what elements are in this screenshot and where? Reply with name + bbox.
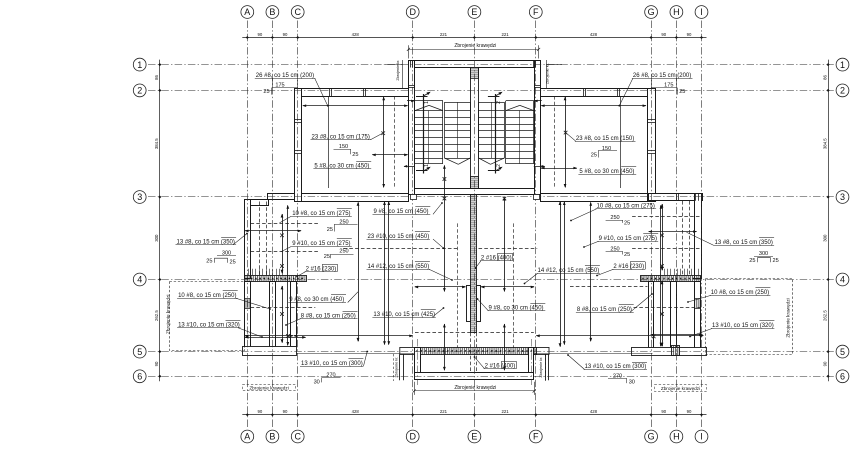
svg-text:6: 6 [840,372,845,382]
svg-text:221: 221 [440,32,448,37]
svg-text:25: 25 [624,221,630,227]
grid axis 3 horizontal dash-dot line [148,196,834,198]
grid axis B vertical dash-dot line [272,21,274,429]
hidden wall line south wing east [513,223,515,348]
hidden bar line west 9#8 [251,307,316,309]
svg-text:90: 90 [661,409,666,414]
bar position x mark [280,234,284,238]
west edge-zone dashed rectangle [170,282,245,351]
grid axis 2 horizontal dash-dot line [148,90,834,92]
svg-text:D: D [409,7,416,17]
west outer wall below row 4 [245,282,251,356]
arrow vertical 10#8 west upper [282,214,284,273]
svg-text:86: 86 [154,75,159,80]
svg-text:I: I [700,432,703,442]
svg-text:175: 175 [664,83,673,89]
center doorway west jamb [467,286,471,322]
svg-text:1: 1 [137,60,142,70]
svg-text:150: 150 [339,144,348,150]
svg-text:Zbrojenie kr.: Zbrojenie kr. [396,60,400,81]
svg-text:10 #8, co 15 cm (250): 10 #8, co 15 cm (250) [711,290,769,296]
svg-text:2: 2 [496,101,502,104]
svg-text:26 #8, co 15 cm (200): 26 #8, co 15 cm (200) [256,73,314,79]
arrow span 13#8 east protrusion [649,231,697,233]
rebar dots east edge beam [642,278,644,280]
hidden bar line west upper [251,223,319,225]
section cut line 1-1 [423,94,425,174]
grid axis G vertical dash-dot line [651,21,653,429]
hidden wall below east pair [682,201,684,275]
arrow span slab west of C [245,335,293,337]
east corridor wall on axis G below row 4 [649,282,654,348]
svg-text:4: 4 [840,275,845,285]
hidden beam line left wing [394,96,396,188]
south wing west stub wall [415,348,421,380]
svg-text:Zbrojenie kr.: Zbrojenie kr. [539,357,543,378]
east edge-zone dashed rectangle [706,279,793,355]
left wing bottom wall [302,194,409,202]
axis bubble C top [291,6,304,19]
grid axis E vertical dash-dot line [474,21,476,429]
axis bubble 3 right [836,191,849,204]
arrow vertical 5#8 left center [358,202,360,341]
south wing bottom wall on row 6 [415,373,534,380]
svg-text:B: B [269,432,275,442]
arrow vertical 9#8 center east upper [504,197,506,291]
svg-text:90: 90 [258,32,263,37]
svg-text:250: 250 [339,249,348,255]
svg-text:10 #8, co 15 cm (275): 10 #8, co 15 cm (275) [292,211,350,217]
svg-text:262.5: 262.5 [154,310,159,321]
svg-text:25: 25 [352,152,358,158]
svg-text:Zbrojenie krawędzi: Zbrojenie krawędzi [165,295,170,334]
wall joint stair west wall [408,85,414,87]
arrow vertical 9#8 center west lower [444,324,446,370]
bar position x mark [381,131,385,135]
svg-text:300: 300 [759,251,768,257]
svg-text:428: 428 [352,409,360,414]
stair block east wall [535,61,541,195]
svg-text:14 #12, co 15 cm (550): 14 #12, co 15 cm (550) [538,268,600,274]
svg-text:9 #10, co 15 cm (275): 9 #10, co 15 cm (275) [599,236,657,242]
wall joints left wing top wall [329,88,331,96]
arrow vertical 10#8 east upper [662,204,664,270]
bar position x mark [280,264,284,268]
svg-text:300: 300 [822,234,827,242]
west protrusion top wall upper segment [268,194,295,200]
axis bubble F bottom [529,430,542,443]
svg-text:30: 30 [314,380,320,386]
grid axis 5 horizontal dash-dot line [148,351,834,353]
arrow span 5#8 left wing [372,154,407,156]
right wing east wall on axis G [648,89,656,202]
svg-text:E: E [471,7,477,17]
svg-text:30: 30 [629,380,635,386]
stair left cell outer flight treads [414,101,416,164]
rebar dots south edge beam [416,350,418,352]
svg-text:150: 150 [602,146,611,152]
hidden slab edge south wing [415,332,534,334]
west protrusion top wall lower segment [245,200,269,206]
axis bubble 2 right [836,84,849,97]
wall joint west outer wall [245,299,251,309]
west hatched edge beam on axis 4 [245,276,307,282]
axis bubble 2 left [133,84,146,97]
slab edge line between wings right [534,353,653,355]
top dimension line [242,37,706,39]
slab edge line between wings left [296,353,415,355]
svg-text:G: G [648,7,655,17]
right wing bottom wall [541,194,648,202]
axis bubble H top [670,6,683,19]
svg-text:6: 6 [137,372,142,382]
east hatched edge beam on axis 4 [641,276,701,282]
axis bubble D top [406,6,419,19]
east protrusion top wall [649,194,703,201]
arrow span slab F to H long [536,335,703,337]
arrow vertical 23#8 right wing [565,97,567,187]
svg-text:Zbrojenie kr.: Zbrojenie kr. [545,63,549,84]
axis bubble B bottom [266,430,279,443]
svg-text:8 #8, co 15 cm (250): 8 #8, co 15 cm (250) [577,307,632,313]
svg-text:13 #10, co 15 cm (425): 13 #10, co 15 cm (425) [373,312,435,318]
svg-text:90: 90 [822,361,827,366]
arrow span 13#8 west protrusion [245,230,301,232]
svg-text:175: 175 [275,83,284,89]
svg-text:25: 25 [230,260,236,266]
axis bubble F top [529,6,542,19]
grid axis I vertical dash-dot line [701,21,703,429]
svg-text:A: A [244,7,250,17]
axis bubble 4 left [133,273,146,286]
grid axis C vertical dash-dot line [297,21,299,429]
svg-text:Zbrojenie kr.: Zbrojenie kr. [395,357,399,378]
stair block west wall [409,61,415,195]
bar position x mark [503,197,507,201]
west rebar ticks above edge beam [248,269,250,275]
svg-text:H: H [673,7,680,17]
svg-text:14 #12, co 15 cm (550): 14 #12, co 15 cm (550) [368,264,430,270]
svg-text:3: 3 [840,192,845,202]
axis bubble A bottom [241,430,254,443]
center spine wall hidden below [470,333,472,372]
subdim 175 right [676,78,678,87]
center spine wall hatched below stairs [471,195,477,333]
axis bubble H bottom [670,430,683,443]
svg-text:26 #8, co 15 cm (200): 26 #8, co 15 cm (200) [633,73,691,79]
svg-text:428: 428 [590,409,598,414]
south wing east stub wall [529,348,534,380]
svg-text:4: 4 [137,275,142,285]
axis bubble 4 right [836,273,849,286]
arrow span 26#8 right wing [541,105,646,107]
svg-text:25: 25 [324,254,330,260]
bar position x mark [280,312,284,316]
svg-text:E: E [471,432,477,442]
stair block bottom wall [409,189,541,195]
arrow span slab C to D [294,335,413,337]
left wing top wall [295,89,409,97]
axis bubble 5 right [836,345,849,358]
left dimension line [159,60,161,382]
svg-text:B: B [269,7,275,17]
stair left cell inner flight bottom triangle [445,158,459,164]
stair edge arrow east bottom [534,166,545,168]
arrow span 13#10 west protrusion [245,337,306,339]
svg-text:1: 1 [424,164,430,167]
svg-text:F: F [533,432,539,442]
east corridor landing wall [632,348,707,356]
svg-text:262.5: 262.5 [822,310,827,321]
grid axis 4 horizontal dash-dot line [148,279,834,281]
section cut line 2-2 [495,94,497,174]
arrow span 5#8 right wing [541,168,577,170]
stair block top wall [409,61,541,68]
grid axis 1 horizontal dash-dot line [148,64,834,66]
rebar dots west edge beam [247,278,249,280]
svg-text:25: 25 [679,89,685,95]
arrow vertical 5#8 right center [590,202,592,341]
stair right cell outer flight break triangle [520,105,534,110]
axis bubble E bottom [468,430,481,443]
svg-text:1: 1 [424,101,430,104]
axis bubble E top [468,6,481,19]
bar line 26#8 right wing [620,96,622,188]
svg-text:221: 221 [502,409,510,414]
grid axis 6 horizontal dash-dot line [148,376,834,378]
axis bubble A top [241,6,254,19]
arrow span 13#10 east protrusion [651,334,703,336]
svg-text:Zbrojenie krawędzi: Zbrojenie krawędzi [249,386,288,391]
hidden beam line left center [344,248,459,250]
stair block center spine wall [471,68,479,189]
arrow vertical 10#8 east lower [662,281,664,346]
svg-text:I: I [700,7,703,17]
bar position x mark [660,264,664,268]
grid axis A vertical dash-dot line [247,21,249,429]
svg-text:G: G [648,432,655,442]
svg-text:2: 2 [840,86,845,96]
svg-text:25: 25 [624,252,630,258]
svg-text:5: 5 [137,347,142,357]
hidden bar line east upper [632,216,702,218]
grid axis H vertical dash-dot line [676,21,678,429]
svg-text:25: 25 [749,258,755,264]
axis bubble C bottom [291,430,304,443]
svg-text:H: H [673,432,680,442]
hidden bar line west lower [251,251,319,253]
center doorway east jamb [477,286,481,322]
wall joints stair top wall [410,60,412,68]
axis bubble G bottom [645,430,658,443]
south wing east corner step [534,347,549,354]
bar position x mark [443,177,447,181]
arrow vertical 23#10 west pair [384,202,386,345]
arrow vertical long west [287,205,289,345]
south wing west corner step [400,347,415,354]
hidden beam line right center [479,248,538,250]
wall joint stair east wall [534,85,540,87]
svg-text:5: 5 [840,347,845,357]
svg-text:384.5: 384.5 [154,138,159,149]
left wing west wall on axis C [295,89,302,202]
west corridor landing wall [243,347,297,356]
arrow span 26#8 left wing [303,105,408,107]
svg-text:13 #8, co 15 cm (350): 13 #8, co 15 cm (350) [715,240,773,246]
bar position x mark [660,234,664,238]
axis bubble D bottom [406,430,419,443]
svg-text:2 #16 (230): 2 #16 (230) [613,264,644,270]
svg-text:Zbrojenie krawędzi: Zbrojenie krawędzi [785,298,790,337]
hidden beam line right wing [554,96,556,188]
axis bubble 6 left [133,370,146,383]
svg-text:D: D [409,432,416,442]
east rebar ticks above edge beam [664,269,666,275]
svg-text:25: 25 [591,153,597,159]
svg-text:86: 86 [822,75,827,80]
stair edge arrow west bottom [404,166,415,168]
svg-text:250: 250 [610,215,619,221]
stair left cell outer flight break triangle [415,105,429,110]
arrow vertical 23#8 left wing [383,97,385,187]
arrow vertical 9#8 center east lower [504,324,506,370]
bar position x mark [443,197,447,201]
svg-text:90: 90 [687,32,692,37]
west corridor wall on axis C below row 4 [291,282,297,347]
svg-text:90: 90 [258,409,263,414]
east protrusion east wall [695,194,702,279]
arrow span doorway west [415,286,466,288]
wall joints left wing west wall [295,119,302,121]
svg-text:2: 2 [137,86,142,96]
svg-text:25: 25 [327,227,333,233]
arrow vertical 10#8 west lower [282,286,284,343]
stair left cell inner flight treads [444,102,446,158]
svg-text:13 #10, co 15 cm (300): 13 #10, co 15 cm (300) [301,361,363,367]
grid axis F vertical dash-dot line [535,21,537,429]
axis bubble I top [695,6,708,19]
bottom dimension line [242,414,706,416]
axis bubble I bottom [695,430,708,443]
bar position x mark [660,312,664,316]
svg-text:90: 90 [687,409,692,414]
svg-text:1: 1 [840,60,845,70]
hidden wall line south wing west [457,223,459,348]
axis bubble 3 left [133,191,146,204]
svg-text:428: 428 [590,32,598,37]
svg-text:10 #8, co 15 cm (250): 10 #8, co 15 cm (250) [178,293,236,299]
svg-text:3: 3 [137,192,142,202]
svg-text:428: 428 [352,32,360,37]
joint box on stair bottom wall east [534,195,540,200]
hidden bar line east 13#10 [634,307,704,309]
wall joints right wing east wall [648,119,655,121]
axis bubble B top [266,6,279,19]
hidden wall below west pair [259,202,261,276]
arrow vertical long east [660,205,662,346]
wall joints right wing top wall [617,88,619,96]
axis bubble G top [645,6,658,19]
svg-text:F: F [533,7,539,17]
stair edge arrow west top [407,100,414,102]
bar line 26#8 left wing [328,96,330,188]
bar position x mark [564,131,568,135]
axis bubble 1 left [133,58,146,71]
svg-text:23 #8, co 15 cm (150): 23 #8, co 15 cm (150) [576,136,634,142]
stair right cell inner flight treads [504,102,506,158]
edge reinforcement label bottom left boxed [243,385,296,391]
svg-text:25: 25 [263,89,269,95]
svg-text:9 #8, co 15 cm (450): 9 #8, co 15 cm (450) [374,209,429,215]
arrow span doorway east [481,286,534,288]
svg-text:221: 221 [502,32,510,37]
joint box on stair bottom wall west [411,195,417,200]
axis bubble 1 right [836,58,849,71]
stair right cell outer flight treads [505,101,507,164]
wall centerline stub west stub wall [417,339,419,385]
wall joint east outer wall [695,299,701,309]
east outer wall below row 4 [695,282,701,356]
svg-text:2: 2 [496,164,502,167]
svg-text:A: A [244,432,250,442]
bar position x mark [286,334,290,338]
svg-text:90: 90 [154,361,159,366]
hidden bar line east 10#8 [570,286,647,288]
stair edge arrow east top [535,100,542,102]
svg-text:384.5: 384.5 [822,138,827,149]
svg-text:90: 90 [283,32,288,37]
svg-text:90: 90 [283,409,288,414]
south wing hatched edge beam on axis 5 [415,348,537,355]
right wing top wall [541,89,656,97]
bar position x mark [652,335,656,339]
wall centerline stub east stub wall [531,339,533,385]
arrow vertical 23#10 east pair [564,202,566,345]
edge reinforcement label bottom right boxed [655,385,707,392]
west corridor wall on axis B below row 4 [270,282,276,347]
svg-text:221: 221 [440,409,448,414]
west protrusion west wall [245,200,251,279]
subdim 175 left [272,78,274,87]
arrow vertical 9#8 center west upper [444,165,446,291]
svg-text:C: C [294,432,301,442]
svg-text:Zbrojenie krawędzi: Zbrojenie krawędzi [661,386,700,391]
grid axis D vertical dash-dot line [412,21,414,429]
svg-text:23 #10, co 15 cm (450): 23 #10, co 15 cm (450) [368,234,430,240]
hidden bar line east lower [632,248,702,250]
svg-text:25: 25 [773,258,779,264]
svg-text:C: C [294,7,301,17]
stair right cell inner flight bottom triangle [491,158,505,164]
svg-text:300: 300 [154,234,159,242]
svg-text:25: 25 [206,258,212,264]
east corridor wall on axis H below row 4 [671,282,677,348]
axis bubble 5 left [133,345,146,358]
axis bubble 6 right [836,370,849,383]
right dimension line [828,60,830,382]
svg-text:90: 90 [661,32,666,37]
svg-text:Zbrojenie krawędzi: Zbrojenie krawędzi [454,43,496,49]
